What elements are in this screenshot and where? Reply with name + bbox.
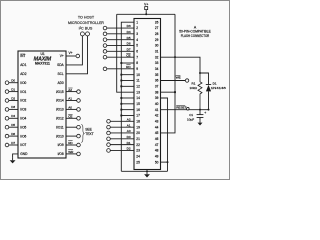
- svg-text:D4: D4: [127, 30, 131, 34]
- node CE terminal (connector side): [103, 55, 107, 59]
- SEE TEXT brace and label: [81, 124, 84, 142]
- ground (U1): [12, 157, 14, 160]
- svg-text:33: 33: [155, 61, 159, 65]
- svg-text:20: 20: [136, 131, 140, 135]
- svg-text:48: 48: [155, 149, 159, 153]
- wire pin 39 to GND right rail: [161, 98, 168, 171]
- capacitor C1: [197, 114, 204, 116]
- svg-text:SCL: SCL: [57, 72, 63, 76]
- svg-text:35: 35: [155, 73, 159, 77]
- IC U1 MAX7311 I/O expander body: [18, 51, 66, 158]
- node D3 terminal (connector side): [103, 26, 107, 30]
- svg-text:2: 2: [136, 26, 138, 30]
- svg-text:WR: WR: [68, 150, 74, 154]
- junction pin 15 on GND rail: [120, 103, 122, 105]
- svg-text:GND: GND: [20, 152, 28, 156]
- wire A2 to pin 18: [110, 120, 134, 122]
- node D1 terminal (connector side): [107, 143, 111, 147]
- node RD terminal (U1 side): [77, 143, 81, 147]
- wire U1 I/O11 to unused terminal: [66, 126, 77, 128]
- wire V+ left branch to pin 13: [117, 14, 134, 92]
- svg-text:+: +: [204, 111, 206, 115]
- wire RD to pin 9: [107, 68, 134, 70]
- node V+ terminal at U1: [76, 54, 80, 58]
- wire D5 to U1 I/O5: [9, 126, 18, 128]
- svg-text:25: 25: [136, 160, 140, 164]
- node D4 terminal (connector side): [103, 32, 107, 36]
- svg-text:D0: D0: [11, 79, 15, 83]
- wire pin 15 stub to GND rail: [121, 103, 134, 105]
- wire U1 I/O9 to node RD: [66, 144, 77, 146]
- svg-text:I/O5: I/O5: [20, 125, 26, 129]
- node A1 terminal (connector side): [107, 125, 111, 129]
- node WR terminal (U1 side): [77, 152, 81, 156]
- wire pin 32 to V+ of reset network: [161, 57, 201, 73]
- ground (connector): [146, 171, 148, 174]
- svg-text:I/O15: I/O15: [56, 90, 64, 94]
- svg-text:I/O8: I/O8: [58, 152, 64, 156]
- svg-text:I/O13: I/O13: [56, 108, 64, 112]
- svg-text:D0: D0: [127, 135, 131, 139]
- svg-text:45: 45: [155, 131, 159, 135]
- node CE terminal (U1 side): [77, 117, 81, 121]
- wire RESET pin 41: [161, 109, 209, 111]
- node A2 terminal (U1 side): [77, 90, 81, 94]
- svg-text:23: 23: [136, 149, 140, 153]
- svg-text:38: 38: [155, 90, 159, 94]
- svg-text:7: 7: [136, 55, 138, 59]
- svg-text:RESET: RESET: [176, 106, 186, 110]
- svg-text:8: 8: [136, 61, 138, 65]
- wire pin 16 stub to GND rail: [121, 109, 134, 111]
- svg-text:27: 27: [155, 26, 159, 30]
- wire D0 to U1 I/O0: [9, 82, 18, 84]
- svg-text:41: 41: [155, 108, 159, 112]
- svg-text:D5: D5: [127, 36, 131, 40]
- svg-text:22: 22: [136, 143, 140, 147]
- wire D0 to pin 21: [110, 138, 134, 140]
- svg-text:10: 10: [136, 73, 140, 77]
- node RESET terminal: [187, 107, 190, 110]
- svg-text:16: 16: [136, 108, 140, 112]
- svg-text:D7: D7: [127, 48, 131, 52]
- svg-text:40: 40: [155, 102, 159, 106]
- svg-text:18: 18: [136, 120, 140, 124]
- svg-text:I/O4: I/O4: [20, 117, 26, 121]
- svg-text:46: 46: [155, 137, 159, 141]
- svg-text:6: 6: [136, 50, 138, 54]
- wire D1 anode to reset node: [208, 91, 210, 109]
- svg-text:29: 29: [155, 38, 159, 42]
- svg-text:31: 31: [155, 50, 159, 54]
- svg-text:AD2: AD2: [20, 72, 26, 76]
- svg-text:I/O10: I/O10: [56, 134, 64, 138]
- wire U1 I/O13 to node A0: [66, 108, 77, 110]
- svg-text:D5: D5: [11, 123, 15, 127]
- wire pin 36 to node WE: [161, 80, 186, 82]
- junction pin 50 on GND rail: [167, 161, 169, 163]
- svg-text:26: 26: [155, 20, 159, 24]
- svg-text:U1: U1: [40, 52, 44, 56]
- wire U1 V+ pin: [66, 55, 76, 57]
- node D2 terminal (connector side): [107, 149, 111, 153]
- svg-text:I/O0: I/O0: [20, 81, 26, 85]
- junction RESET/D1: [208, 109, 210, 111]
- svg-text:D3: D3: [11, 105, 15, 109]
- svg-text:V+: V+: [60, 54, 64, 58]
- wire pin 14 stub to GND rail: [121, 97, 134, 99]
- junction pin 8 on GND rail: [120, 62, 122, 64]
- junction ground tap: [146, 170, 148, 172]
- wire U1 I/O8 to node WR: [66, 153, 77, 155]
- node D2 input terminal: [5, 99, 9, 103]
- svg-text:39: 39: [155, 96, 159, 100]
- svg-text:I/O11: I/O11: [56, 125, 64, 129]
- node unused terminal: [77, 125, 81, 129]
- svg-text:D1: D1: [11, 87, 15, 91]
- junction pin 14 on GND rail: [120, 97, 122, 99]
- junction RESET/R1/C1: [199, 109, 201, 111]
- wire D1 to U1 I/O1: [9, 91, 18, 93]
- wire pin 12 stub to GND rail: [121, 85, 134, 87]
- svg-text:12: 12: [136, 85, 140, 89]
- node D7 input terminal: [5, 143, 9, 147]
- junction pin 12 on GND rail: [120, 85, 122, 87]
- wire pin 50 stub: [161, 161, 168, 163]
- svg-text:14: 14: [136, 96, 140, 100]
- svg-text:D6: D6: [127, 42, 131, 46]
- svg-text:A1: A1: [127, 123, 131, 127]
- junction pin 16 on GND rail: [120, 109, 122, 111]
- svg-text:28: 28: [155, 32, 159, 36]
- node unused terminal: [77, 134, 81, 138]
- svg-text:AD0: AD0: [57, 81, 63, 85]
- svg-text:I/O6: I/O6: [20, 134, 26, 138]
- node A2 terminal (connector side): [107, 120, 111, 124]
- node D0 terminal (connector side): [107, 137, 111, 141]
- resistor R1: [198, 73, 202, 110]
- wire U1 I/O15 to node A2: [66, 91, 77, 93]
- wire CE to pin 7: [107, 56, 134, 58]
- junction pin 11 on GND rail: [120, 80, 122, 82]
- wire V+ right branch: [161, 14, 176, 133]
- wire C1 bottom lead: [199, 118, 201, 121]
- svg-text:D1: D1: [127, 141, 131, 145]
- svg-text:D4: D4: [11, 114, 15, 118]
- junction pin 38 on V+ rail: [174, 91, 176, 93]
- wire U1 I/O10 to unused terminal: [66, 135, 77, 137]
- svg-text:42: 42: [155, 114, 159, 118]
- svg-text:I/O1: I/O1: [20, 90, 26, 94]
- svg-text:11: 11: [136, 79, 140, 83]
- wire pin 11 stub to GND rail: [121, 80, 134, 82]
- wire D6 to U1 I/O6: [9, 135, 18, 137]
- svg-text:19: 19: [136, 125, 140, 129]
- wire U1 I/O12 to node CE: [66, 117, 77, 119]
- node D0 input terminal: [5, 81, 9, 85]
- diode D1: [206, 84, 211, 86]
- svg-text:34: 34: [155, 67, 159, 71]
- svg-text:44: 44: [155, 125, 159, 129]
- svg-text:37: 37: [155, 85, 159, 89]
- svg-text:32: 32: [155, 55, 159, 59]
- svg-text:47: 47: [155, 143, 159, 147]
- wire U1 GND pin to ground: [13, 154, 18, 157]
- node D5 input terminal: [5, 125, 9, 129]
- svg-text:D2: D2: [11, 96, 15, 100]
- node D3 input terminal: [5, 108, 9, 112]
- node D7 terminal (connector side): [103, 50, 107, 54]
- svg-text:I/O2: I/O2: [20, 99, 26, 103]
- connector J1 50-pin flash connector body: [134, 19, 161, 170]
- svg-text:17: 17: [136, 114, 140, 118]
- svg-text:9: 9: [136, 67, 138, 71]
- svg-text:A0: A0: [68, 106, 72, 110]
- wire D4 to pin 3: [107, 33, 134, 35]
- wire A0 to pin 20: [110, 132, 134, 134]
- wire A1 to pin 19: [110, 126, 134, 128]
- svg-text:SDA: SDA: [57, 63, 64, 67]
- svg-text:49: 49: [155, 154, 159, 158]
- wire SCL from U1 to host terminal: [66, 36, 88, 74]
- node A1 terminal (U1 side): [77, 99, 81, 103]
- wire D2 to U1 I/O2: [9, 100, 18, 102]
- svg-text:I/O12: I/O12: [56, 117, 64, 121]
- svg-text:AD1: AD1: [20, 63, 26, 67]
- svg-text:I/O7: I/O7: [20, 143, 26, 147]
- svg-text:INT: INT: [20, 54, 25, 58]
- svg-text:3: 3: [136, 32, 138, 36]
- svg-text:MICROCONTROLLER: MICROCONTROLLER: [68, 21, 104, 25]
- svg-text:10µF: 10µF: [187, 117, 194, 121]
- wire D1 to pin 22: [110, 144, 134, 146]
- svg-text:TO HOST: TO HOST: [78, 16, 95, 20]
- wire D3 to pin 2: [107, 27, 134, 29]
- wire GND bottom rail: [121, 170, 167, 172]
- wire C1 top lead: [199, 110, 201, 115]
- svg-text:I/O9: I/O9: [58, 143, 64, 147]
- node D5 terminal (connector side): [103, 38, 107, 42]
- wire D7 to pin 6: [107, 50, 134, 52]
- wire D7 to U1 I/O7: [9, 144, 18, 146]
- junction pin 17 on GND rail: [120, 115, 122, 117]
- svg-text:V+: V+: [144, 3, 148, 7]
- svg-text:4: 4: [136, 38, 138, 42]
- wire pin 8 stub to GND rail: [121, 62, 134, 64]
- svg-text:30: 30: [155, 44, 159, 48]
- svg-text:50-PIN-COMPATIBLE: 50-PIN-COMPATIBLE: [179, 30, 211, 34]
- svg-text:1N4148: 1N4148: [211, 86, 226, 90]
- node D4 input terminal: [5, 117, 9, 121]
- wire pin 10 stub to GND rail: [121, 74, 134, 76]
- wire D2 to pin 23: [110, 149, 134, 151]
- node D6 terminal (connector side): [103, 44, 107, 48]
- svg-text:24: 24: [136, 154, 140, 158]
- svg-text:21: 21: [136, 137, 140, 141]
- svg-text:D7: D7: [11, 141, 15, 145]
- svg-text:CE: CE: [68, 115, 72, 119]
- wire SDA from U1 to host terminal: [66, 36, 82, 65]
- svg-text:CE: CE: [126, 53, 130, 57]
- svg-text:RD: RD: [68, 141, 73, 145]
- svg-text:A2: A2: [68, 88, 72, 92]
- svg-text:RD: RD: [126, 65, 131, 69]
- node A0 terminal (connector side): [107, 131, 111, 135]
- svg-text:13: 13: [136, 90, 140, 94]
- svg-text:A0: A0: [127, 129, 131, 133]
- wire D4 to U1 I/O4: [9, 117, 18, 119]
- svg-text:43: 43: [155, 120, 159, 124]
- wire pin 1 to GND left rail: [121, 22, 134, 171]
- svg-text:A1: A1: [68, 97, 72, 101]
- wire D5 to pin 4: [107, 39, 134, 41]
- node RD terminal (connector side): [103, 67, 107, 71]
- svg-text:MAX7311: MAX7311: [35, 61, 50, 65]
- wire U1 I/O14 to node A1: [66, 100, 77, 102]
- svg-text:D2: D2: [127, 147, 131, 151]
- svg-text:5: 5: [136, 44, 138, 48]
- wire V+ horizontal rail: [117, 13, 175, 15]
- svg-text:WE: WE: [176, 76, 181, 80]
- node D6 input terminal: [5, 134, 9, 138]
- wire D3 to U1 I/O3: [9, 108, 18, 110]
- node SCL host terminal: [86, 32, 90, 36]
- node WE terminal: [185, 79, 188, 82]
- junction V+ / pin32 wire: [174, 56, 176, 58]
- wire top rail to D1: [200, 73, 209, 84]
- node D1 input terminal: [5, 90, 9, 94]
- svg-text:TEXT: TEXT: [85, 132, 93, 136]
- svg-text:I2C BUS: I2C BUS: [79, 27, 93, 31]
- junction R1/D1 top: [199, 72, 201, 74]
- node SDA host terminal: [80, 32, 84, 36]
- svg-text:10kΩ: 10kΩ: [190, 86, 198, 90]
- wire V+ terminal stem: [145, 10, 147, 15]
- junction V+ rail: [145, 13, 147, 15]
- wire D6 to pin 5: [107, 45, 134, 47]
- node A0 terminal (U1 side): [77, 108, 81, 112]
- svg-text:1: 1: [136, 20, 138, 24]
- svg-text:D6: D6: [11, 132, 15, 136]
- svg-text:A2: A2: [127, 118, 131, 122]
- svg-text:I/O14: I/O14: [56, 99, 64, 103]
- svg-text:I/O3: I/O3: [20, 108, 26, 112]
- ground (C1): [199, 120, 201, 122]
- svg-text:15: 15: [136, 102, 140, 106]
- svg-text:V+: V+: [68, 51, 72, 55]
- wire pin 38 stub to V+ rail: [161, 91, 176, 93]
- junction pin 10 on GND rail: [120, 74, 122, 76]
- svg-text:50: 50: [155, 160, 159, 164]
- svg-text:36: 36: [155, 79, 159, 83]
- svg-text:FLASH CONNECTOR: FLASH CONNECTOR: [181, 34, 210, 38]
- wire pin 17 stub to GND rail: [121, 114, 134, 116]
- svg-text:D3: D3: [127, 24, 131, 28]
